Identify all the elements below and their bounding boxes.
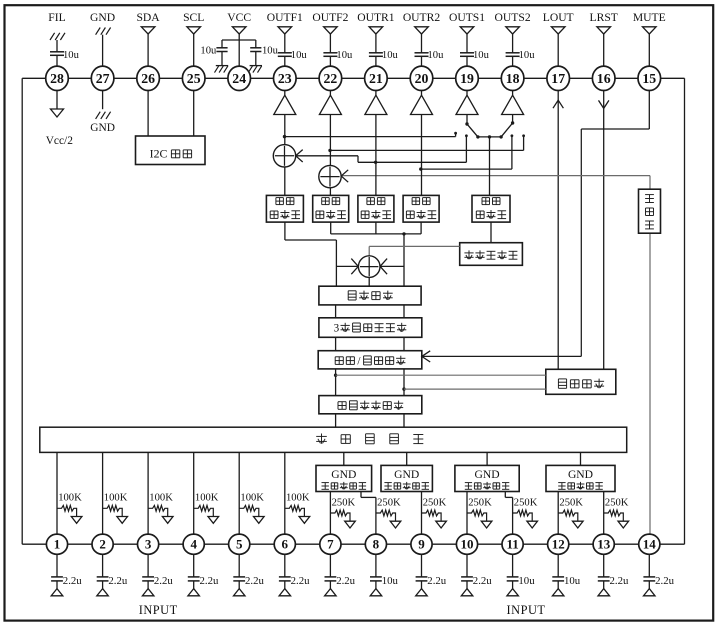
svg-text:25: 25: [187, 71, 201, 86]
svg-text:OUTS1: OUTS1: [449, 11, 485, 24]
svg-text:17: 17: [551, 71, 565, 86]
svg-text:250K: 250K: [605, 497, 629, 508]
svg-text:100K: 100K: [286, 493, 310, 504]
svg-text:10u: 10u: [519, 50, 536, 61]
svg-text:INPUT: INPUT: [507, 603, 546, 617]
svg-text:1: 1: [54, 537, 61, 552]
svg-text:10u: 10u: [336, 50, 353, 61]
svg-text:OUTR1: OUTR1: [357, 11, 395, 24]
svg-text:2.2u: 2.2u: [200, 575, 219, 587]
svg-text:21: 21: [369, 71, 383, 86]
svg-text:10u: 10u: [518, 575, 535, 587]
svg-text:GND: GND: [475, 468, 500, 481]
svg-text:3: 3: [145, 537, 152, 552]
svg-text:2.2u: 2.2u: [427, 575, 446, 587]
svg-text:OUTS2: OUTS2: [495, 11, 531, 24]
svg-text:2.2u: 2.2u: [108, 575, 127, 587]
svg-text:250K: 250K: [332, 497, 356, 508]
svg-text:FIL: FIL: [48, 11, 65, 24]
svg-text:SDA: SDA: [136, 11, 160, 24]
svg-text:9: 9: [418, 537, 425, 552]
svg-text:250K: 250K: [423, 497, 447, 508]
svg-text:10u: 10u: [200, 45, 217, 56]
svg-text:GND: GND: [90, 11, 115, 24]
svg-text:OUTF1: OUTF1: [267, 11, 303, 24]
svg-text:INPUT: INPUT: [139, 603, 178, 617]
svg-text:2.2u: 2.2u: [655, 575, 674, 587]
svg-text:2.2u: 2.2u: [63, 575, 82, 587]
svg-text:GND: GND: [568, 468, 593, 481]
svg-text:19: 19: [460, 71, 474, 86]
svg-text:11: 11: [506, 537, 518, 552]
svg-text:LOUT: LOUT: [543, 11, 574, 24]
svg-text:8: 8: [373, 537, 380, 552]
svg-text:12: 12: [552, 537, 565, 552]
svg-text:16: 16: [597, 71, 611, 86]
svg-text:10u: 10u: [262, 45, 279, 56]
svg-text:250K: 250K: [377, 497, 401, 508]
svg-text:2.2u: 2.2u: [336, 575, 355, 587]
svg-text:2.2u: 2.2u: [610, 575, 629, 587]
svg-text:250K: 250K: [468, 497, 492, 508]
svg-text:10u: 10u: [564, 575, 581, 587]
svg-text:7: 7: [327, 537, 334, 552]
svg-text:GND: GND: [331, 468, 356, 481]
svg-text:100K: 100K: [104, 493, 128, 504]
svg-text:10: 10: [461, 537, 474, 552]
svg-text:MUTE: MUTE: [633, 11, 666, 24]
svg-text:OUTR2: OUTR2: [403, 11, 441, 24]
svg-text:10u: 10u: [291, 50, 308, 61]
svg-text:100K: 100K: [149, 493, 173, 504]
svg-text:250K: 250K: [514, 497, 538, 508]
svg-text:22: 22: [324, 71, 338, 86]
svg-text:6: 6: [282, 537, 289, 552]
svg-text:15: 15: [642, 71, 656, 86]
svg-text:2: 2: [99, 537, 106, 552]
svg-text:10u: 10u: [382, 575, 399, 587]
svg-text:28: 28: [50, 71, 64, 86]
svg-text:100K: 100K: [240, 493, 264, 504]
svg-text:I2C: I2C: [150, 147, 168, 161]
svg-text:13: 13: [597, 537, 611, 552]
svg-text:4: 4: [190, 537, 197, 552]
svg-text:10u: 10u: [63, 50, 80, 61]
svg-text:LRST: LRST: [590, 11, 618, 24]
svg-text:18: 18: [506, 71, 520, 86]
svg-text:GND: GND: [90, 122, 115, 134]
svg-text:20: 20: [415, 71, 429, 86]
svg-text:SCL: SCL: [183, 11, 204, 24]
svg-text:10u: 10u: [473, 50, 490, 61]
svg-text:GND: GND: [394, 468, 419, 481]
svg-text:10u: 10u: [382, 50, 399, 61]
svg-text:Vcc/2: Vcc/2: [46, 135, 74, 147]
svg-text:2.2u: 2.2u: [291, 575, 310, 587]
svg-text:23: 23: [278, 71, 292, 86]
svg-text:5: 5: [236, 537, 243, 552]
svg-text:3: 3: [334, 323, 340, 335]
svg-text:OUTF2: OUTF2: [312, 11, 348, 24]
svg-text:2.2u: 2.2u: [473, 575, 492, 587]
svg-text:10u: 10u: [428, 50, 445, 61]
svg-text:2.2u: 2.2u: [245, 575, 264, 587]
svg-text:24: 24: [232, 71, 246, 86]
svg-text:100K: 100K: [195, 493, 219, 504]
svg-text:26: 26: [141, 71, 155, 86]
svg-text:27: 27: [96, 71, 110, 86]
svg-text:VCC: VCC: [227, 11, 251, 24]
svg-text:14: 14: [643, 537, 657, 552]
svg-text:2.2u: 2.2u: [154, 575, 173, 587]
svg-text:250K: 250K: [559, 497, 583, 508]
svg-text:100K: 100K: [58, 493, 82, 504]
